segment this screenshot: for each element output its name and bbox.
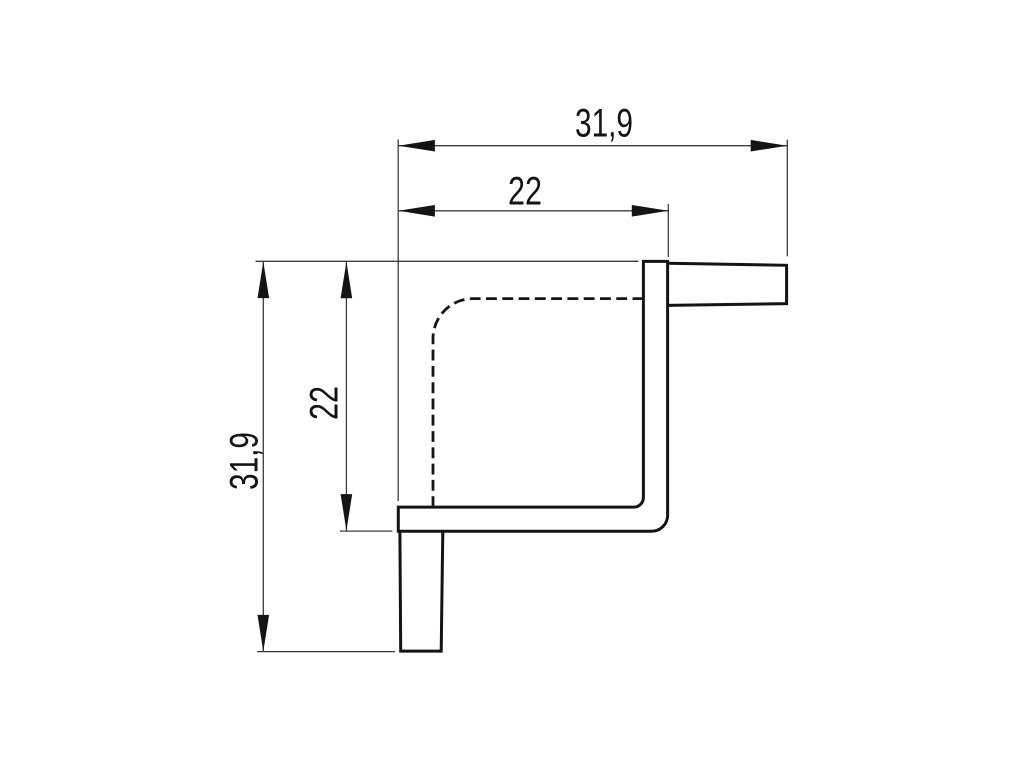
extension line top horizontal (y=261)	[256, 260, 639, 262]
dimension line 22 horizontal	[398, 210, 668, 212]
hidden inner contour (dashed)	[433, 299, 643, 507]
profile arm (top right flange)	[668, 263, 787, 305]
svg-text:22: 22	[303, 386, 347, 420]
arrow left of 31,9	[398, 140, 435, 152]
arrow right of 22	[632, 205, 669, 217]
extension line for 22 bottom (y=531)	[340, 530, 392, 532]
svg-text:31,9: 31,9	[223, 432, 267, 490]
profile main L-section body	[398, 261, 667, 531]
dimension line 31,9 horizontal	[398, 145, 787, 147]
arrow down of 31,9 vertical	[258, 615, 270, 652]
dimension line 31,9 vertical	[262, 262, 264, 652]
svg-text:22: 22	[508, 170, 542, 214]
extension line for 22 right (x=668)	[667, 204, 669, 257]
svg-text:31,9: 31,9	[575, 101, 633, 145]
arrow left of 22	[398, 205, 435, 217]
arrow right of 31,9	[751, 140, 788, 152]
extension line bottom (y=651)	[257, 651, 395, 653]
profile leg (bottom left flange)	[400, 531, 443, 651]
arrow up of 31,9 vertical	[258, 262, 270, 299]
arrow down of 22 vertical	[341, 494, 353, 530]
extension line for 31,9 right (x=787)	[786, 140, 788, 257]
extension line top-left vertical (x=398)	[397, 140, 399, 502]
dimension line 22 vertical	[345, 262, 347, 531]
arrow up of 22 vertical	[341, 262, 353, 299]
